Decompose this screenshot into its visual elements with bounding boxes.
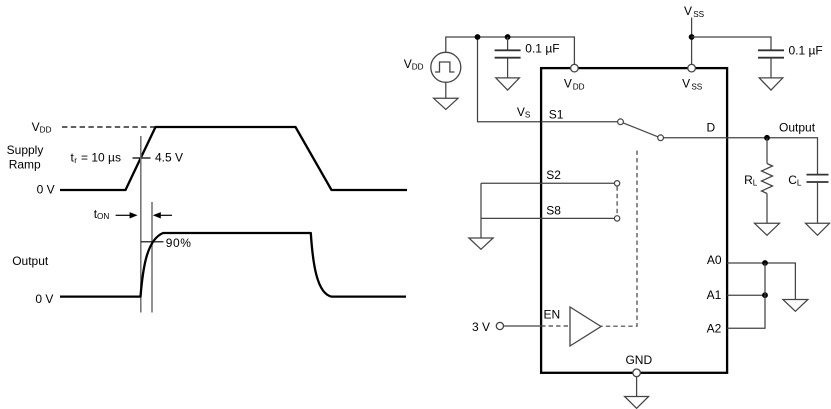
wire output node xyxy=(727,138,817,175)
wire D xyxy=(664,137,728,139)
junction dot VDD rail / bypass cap xyxy=(505,34,511,40)
wire EN dashed segment xyxy=(541,325,570,327)
capacitor CL lower wire xyxy=(817,182,819,223)
ground below GND pin xyxy=(625,397,649,409)
wire tON measurement line 2 xyxy=(151,202,153,313)
svg-text:A1: A1 xyxy=(707,288,722,302)
wire 4.5V leader tick xyxy=(133,157,151,159)
wire A1 xyxy=(727,294,765,296)
svg-text:Supply: Supply xyxy=(7,143,44,157)
pin circle S8 xyxy=(614,216,619,221)
junction dot VSS rail xyxy=(689,34,695,40)
svg-text:EN: EN xyxy=(544,308,561,322)
wire S1 xyxy=(541,121,618,123)
svg-text:Ramp: Ramp xyxy=(9,157,41,171)
pin circle VDD xyxy=(571,64,579,72)
wire S8 xyxy=(481,217,614,219)
wire S2 xyxy=(481,182,614,184)
wire A0 to ground xyxy=(727,263,795,300)
ground below C2 xyxy=(759,78,783,90)
svg-text:Output: Output xyxy=(779,121,816,135)
svg-text:S8: S8 xyxy=(546,203,561,217)
switch throw circle D xyxy=(658,135,664,141)
dashed link S2-S8 xyxy=(616,186,618,215)
ground below RL xyxy=(755,223,780,235)
wire VS branch xyxy=(478,37,542,122)
ground below CL xyxy=(806,223,830,235)
capacitor C1 plates xyxy=(495,49,521,51)
svg-text:0 V: 0 V xyxy=(37,182,55,196)
svg-text:0.1 µF: 0.1 µF xyxy=(789,44,823,58)
svg-text:4.5 V: 4.5 V xyxy=(155,151,183,165)
capacitor C1 0.1uF wires xyxy=(507,37,509,50)
svg-text:S2: S2 xyxy=(546,168,561,182)
wire EN xyxy=(504,325,542,327)
wire output waveform trace xyxy=(60,233,406,297)
svg-text:0 V: 0 V xyxy=(35,292,53,306)
wire 90% leader tick xyxy=(141,241,164,243)
wire tON measurement line 1 xyxy=(140,136,142,313)
wire tON arrow left xyxy=(159,214,172,216)
svg-text:tr = 10 µs: tr = 10 µs xyxy=(71,151,121,166)
svg-text:Output: Output xyxy=(12,254,49,268)
svg-text:3 V: 3 V xyxy=(472,320,490,334)
svg-text:90%: 90% xyxy=(166,236,192,250)
wire S2/S8 to ground xyxy=(480,183,482,238)
switch blade xyxy=(623,123,658,137)
junction dot A0 xyxy=(762,260,768,266)
wire A2 xyxy=(727,263,765,328)
junction dot output node xyxy=(764,135,770,141)
wire GND to ground xyxy=(636,377,638,397)
node VDD level dashed reference line xyxy=(62,126,156,128)
svg-text:A2: A2 xyxy=(707,321,722,335)
switch pole circle S1 xyxy=(618,119,624,125)
capacitor CL plates xyxy=(807,174,829,176)
pin circle GND xyxy=(633,369,641,377)
svg-text:0.1 µF: 0.1 µF xyxy=(525,41,559,55)
wire VSS to bypass cap xyxy=(692,37,771,50)
wire switch control dashed xyxy=(601,151,637,327)
capacitor C2 0.1uF plates xyxy=(758,49,784,51)
wire VSS rail xyxy=(691,18,693,65)
wire VDD rail xyxy=(446,37,575,64)
svg-text:GND: GND xyxy=(625,353,652,367)
wire source to ground xyxy=(445,82,447,98)
svg-text:A0: A0 xyxy=(707,253,722,267)
junction dot A1 xyxy=(762,292,768,298)
resistor RL xyxy=(766,138,768,164)
ground below VDD source xyxy=(434,98,458,109)
ground below address pins xyxy=(783,300,808,312)
svg-text:S1: S1 xyxy=(549,107,564,121)
buffer U2 enable driver xyxy=(570,307,601,346)
ground below S2/S8 xyxy=(469,238,493,249)
pin circle S2 xyxy=(614,181,619,186)
source V1 VDD pulse generator xyxy=(431,52,461,82)
svg-text:D: D xyxy=(707,121,716,135)
mux chip body U1 xyxy=(541,68,727,373)
ground below C1 xyxy=(496,78,520,90)
wire supply ramp waveform trace xyxy=(60,127,407,190)
pin circle VSS xyxy=(688,64,696,72)
junction dot VDD rail / VS xyxy=(475,34,481,40)
wire tON arrow right xyxy=(116,214,131,216)
capacitor C2 lower wire xyxy=(770,58,772,78)
terminal circle EN input xyxy=(496,322,503,329)
